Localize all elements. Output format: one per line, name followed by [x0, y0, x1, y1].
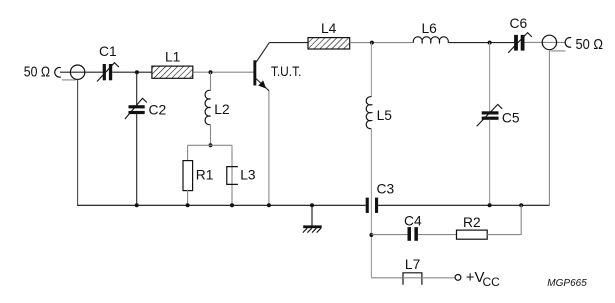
svg-text:C4: C4: [404, 214, 422, 229]
node ground symbol junction: [310, 203, 314, 207]
node C5 ground: [488, 203, 492, 207]
capacitor C6 plates: [514, 35, 524, 51]
wire L6 to C6: [448, 42, 514, 44]
wire input to C1: [60, 71, 103, 73]
node C2 ground: [135, 203, 139, 207]
wire emitter down: [268, 91, 270, 206]
node junction L4/L5/L6: [370, 41, 374, 45]
wire L5 upper: [370, 43, 372, 97]
wire L7 left: [371, 277, 402, 279]
output connector J2 circle: [542, 35, 556, 49]
capacitor C4 plates: [408, 227, 418, 241]
svg-text:R2: R2: [463, 215, 481, 230]
svg-text:L3: L3: [240, 168, 256, 183]
wire L2 lower: [210, 125, 212, 146]
resistor R2: [457, 230, 488, 239]
svg-text:L6: L6: [422, 21, 438, 36]
VCC terminal circle: [455, 275, 461, 281]
capacitor C5 plates: [482, 111, 499, 119]
transistor Q1 base bar: [253, 60, 256, 85]
svg-text:50 Ω: 50 Ω: [24, 64, 50, 81]
node junction L2/R1/L3: [209, 143, 213, 147]
wire L1 to base: [193, 71, 254, 73]
capacitor C6 trimmer arrow: [508, 33, 532, 53]
wire C5 branch: [489, 43, 491, 112]
wire C2 branch upper: [136, 72, 138, 105]
wire R2 to bus riser: [487, 205, 521, 234]
wire R1-L3 horizontal: [188, 144, 232, 146]
ground bus left: [77, 204, 366, 206]
resistor R1: [183, 161, 193, 191]
input connector J1 shield stub: [62, 79, 76, 81]
capacitor C1 trimmer arrow: [97, 63, 119, 82]
wire C1 to L1: [112, 71, 152, 73]
ground symbol bar and hatches: [303, 225, 322, 232]
wire output shield down: [548, 50, 550, 206]
node R1 ground: [186, 203, 190, 207]
inductor L4 stripline box: [308, 38, 350, 49]
wire R1 bottom stub: [187, 190, 189, 206]
svg-text:MGP665: MGP665: [547, 278, 587, 289]
wire input shield down: [77, 79, 79, 205]
svg-text:L5: L5: [377, 108, 393, 123]
svg-text:50 Ω: 50 Ω: [576, 36, 604, 53]
transistor Q1 emitter lead: [256, 79, 269, 91]
svg-text:L2: L2: [214, 102, 229, 117]
svg-text:C2: C2: [149, 103, 167, 118]
svg-text:C6: C6: [510, 16, 528, 31]
inductor L7 bracket: [403, 273, 422, 285]
capacitor C3 plates: [366, 198, 378, 213]
ground bus right: [378, 204, 549, 206]
svg-text:C3: C3: [377, 181, 395, 196]
label +VCC: [466, 269, 500, 289]
wire C4 to R2: [418, 234, 457, 236]
inductor L6 coil: [413, 37, 448, 43]
node junction L1/L2/base: [209, 70, 213, 74]
svg-text:C1: C1: [99, 44, 117, 59]
capacitor C1 plates: [103, 64, 113, 80]
wire collector to L4: [269, 42, 308, 44]
transistor Q1 emitter arrow: [258, 80, 266, 88]
wire C5 lower: [489, 120, 491, 206]
wire L3 vertical: [231, 145, 233, 205]
svg-text:L4: L4: [321, 21, 337, 36]
wire C6 to output: [525, 41, 566, 43]
node L3 ground: [230, 203, 234, 207]
wire L4 to L6: [350, 42, 414, 44]
node junction L6/C5: [488, 41, 492, 45]
node emitter ground: [267, 203, 271, 207]
svg-text:L7: L7: [405, 257, 420, 272]
wire C4 left: [371, 234, 407, 236]
svg-text:R1: R1: [196, 167, 214, 182]
capacitor C2 trimmer arrow: [125, 98, 147, 119]
svg-text:C5: C5: [502, 110, 520, 125]
transistor Q1 collector lead: [256, 43, 269, 63]
wire R1 top stub: [187, 145, 189, 161]
wire L5 lower through C3 to L7 corner: [370, 129, 372, 278]
input connector J1 circle: [70, 65, 84, 79]
ground symbol stub: [311, 205, 313, 225]
node junction C1/C2: [135, 70, 139, 74]
inductor L1 stripline box: [152, 66, 193, 78]
capacitor C2 plates: [129, 105, 145, 114]
input connector J1 plug arc: [55, 67, 61, 77]
inductor L5 coil: [366, 97, 371, 129]
output connector J2 plug arc: [565, 38, 571, 48]
capacitor C5 trimmer arrow: [477, 104, 503, 126]
wire L2 upper: [210, 72, 212, 90]
node junction C4 branch: [369, 233, 373, 237]
inductor L3 bracket: [227, 167, 238, 185]
node R2 riser on bus: [519, 203, 523, 207]
svg-text:L1: L1: [165, 50, 180, 65]
wire C2 branch lower: [136, 114, 138, 205]
output connector J2 shield stub: [551, 50, 566, 52]
wire L7 to VCC terminal: [403, 277, 455, 279]
inductor L2 coil: [205, 90, 210, 124]
svg-text:CC: CC: [483, 275, 501, 289]
svg-text:T.U.T.: T.U.T.: [271, 64, 302, 79]
